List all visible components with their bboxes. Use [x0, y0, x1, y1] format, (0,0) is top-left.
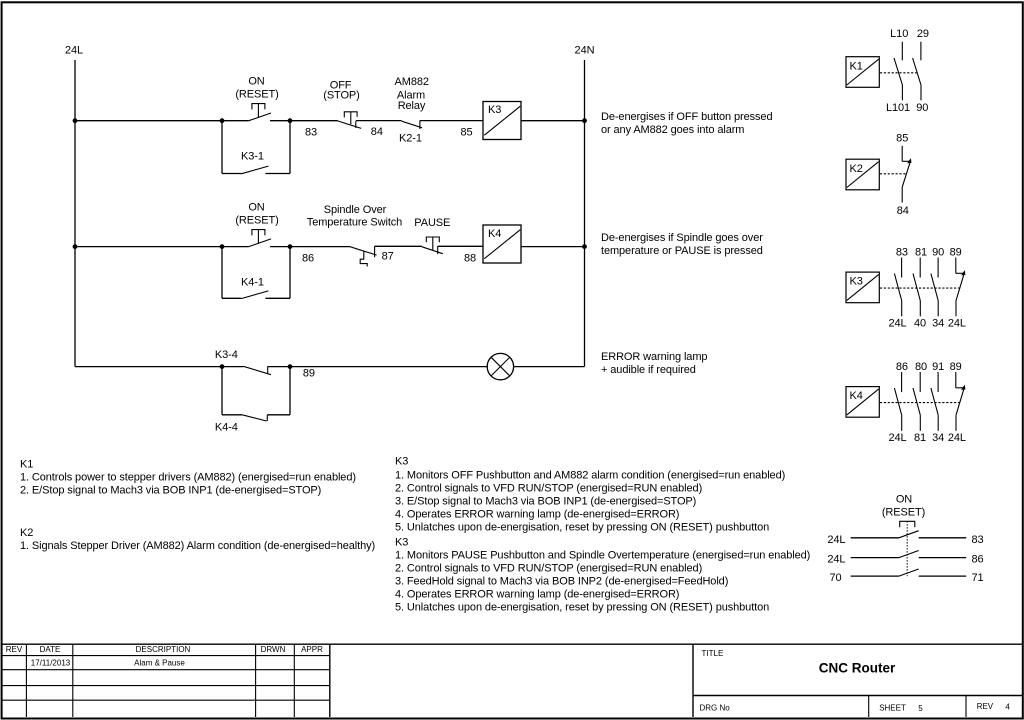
svg-text:2. E/Stop signal to Mach3 via: 2. E/Stop signal to Mach3 via BOB INP1 (… [20, 485, 321, 497]
svg-text:(RESET): (RESET) [235, 215, 278, 227]
svg-text:80: 80 [915, 361, 927, 373]
terminal labels 24L 81 34 24L [888, 432, 965, 444]
coil K3 [483, 102, 521, 140]
title block separator line [2, 643, 1022, 645]
revision table headers [6, 645, 323, 654]
svg-text:83: 83 [305, 127, 317, 139]
svg-text:APPR: APPR [301, 645, 323, 654]
dashed actuator link K3 [880, 287, 960, 289]
svg-text:K3: K3 [395, 456, 408, 468]
dashed actuator link K1 [880, 72, 918, 74]
svg-text:K3: K3 [850, 276, 863, 288]
svg-text:1. Monitors PAUSE Pushbutton a: 1. Monitors PAUSE Pushbutton and Spindle… [395, 550, 810, 562]
svg-text:91: 91 [932, 361, 944, 373]
wire rung1 coil to right rail [521, 120, 585, 122]
svg-text:L101: L101 [886, 102, 910, 114]
svg-text:Temperature Switch: Temperature Switch [307, 217, 402, 229]
svg-text:5. Unlatches upon de-energisat: 5. Unlatches upon de-energisation, reset… [395, 602, 769, 614]
junction rung1 branch-right [288, 118, 293, 123]
junction rung1 branch-left [220, 118, 225, 123]
svg-text:24L: 24L [888, 317, 906, 329]
svg-text:(STOP): (STOP) [323, 90, 359, 102]
svg-text:K1: K1 [20, 459, 33, 471]
note block K3 [395, 456, 785, 534]
relay K2 coil box [846, 159, 879, 190]
wire rung2 between temp switch and PAUSE [375, 245, 422, 247]
svg-text:84: 84 [371, 126, 383, 138]
svg-text:CNC Router: CNC Router [819, 661, 896, 676]
svg-text:3. FeedHold signal to Mach3 vi: 3. FeedHold signal to Mach3 via BOB INP2… [395, 576, 728, 588]
wire rung3 lamp to right rail [514, 366, 585, 368]
svg-text:K4-4: K4-4 [215, 422, 238, 434]
junction rung3 branch-left [220, 364, 225, 369]
terminal labels 24L 40 34 24L [888, 317, 965, 329]
svg-text:70: 70 [829, 572, 841, 584]
svg-text:+ audible if required: + audible if required [601, 364, 696, 376]
svg-text:85: 85 [461, 127, 473, 139]
svg-text:K3-1: K3-1 [241, 151, 264, 163]
svg-text:1. Monitors OFF Pushbutton and: 1. Monitors OFF Pushbutton and AM882 ala… [395, 470, 785, 482]
svg-text:or any AM882 goes into alarm: or any AM882 goes into alarm [601, 124, 744, 136]
svg-text:(RESET): (RESET) [235, 89, 278, 101]
wire rung2 after ON [270, 246, 350, 248]
wire rung2 to coil [438, 245, 483, 247]
relay K4 coil box [846, 387, 879, 418]
contact K3-4 NC [243, 366, 271, 374]
pushbutton OFF (STOP) NC contact [338, 112, 361, 129]
svg-text:K2-1: K2-1 [399, 133, 422, 145]
svg-text:81: 81 [915, 246, 927, 258]
relay AM882 Alarm Relay label [395, 76, 429, 112]
svg-text:90: 90 [916, 102, 928, 114]
contact K3-1 parallel branch [222, 121, 290, 174]
svg-text:4. Operates ERROR warning lamp: 4. Operates ERROR warning lamp (de-energ… [395, 589, 679, 601]
svg-text:1. Signals Stepper Driver (AM8: 1. Signals Stepper Driver (AM882) Alarm … [20, 540, 375, 552]
contact K3 NC pole 4 [956, 258, 966, 317]
svg-text:89: 89 [950, 361, 962, 373]
contact K2 NC [902, 146, 911, 203]
terminal labels 83 81 90 89 [896, 246, 962, 258]
svg-text:40: 40 [914, 317, 926, 329]
svg-text:84: 84 [897, 205, 909, 217]
svg-text:88: 88 [464, 253, 476, 265]
svg-text:DRWN: DRWN [261, 645, 286, 654]
contact K4-1 parallel branch [222, 247, 290, 299]
wire rung3 left [75, 366, 243, 368]
note rung1 [601, 111, 772, 136]
svg-text:24L: 24L [827, 534, 845, 546]
svg-text:24L: 24L [888, 432, 906, 444]
wire rung2 coil to right rail [521, 246, 585, 248]
pushbutton ON (RESET) rung2 NO contact [249, 230, 271, 247]
dashed actuator link K2 [880, 173, 906, 175]
svg-text:K3: K3 [395, 537, 408, 549]
svg-text:ON: ON [248, 201, 264, 213]
coil K4 [483, 225, 521, 263]
revision table row lines [2, 656, 330, 701]
pushbutton ON (RESET) actuator [900, 521, 915, 576]
junction rung2 rail-left [73, 244, 78, 249]
svg-text:90: 90 [932, 246, 944, 258]
svg-text:ON: ON [896, 493, 912, 505]
contact K4 NC pole 4 [956, 372, 966, 431]
svg-text:TITLE: TITLE [702, 649, 724, 658]
svg-text:89: 89 [303, 367, 315, 379]
svg-text:SHEET: SHEET [879, 703, 906, 712]
right rail 24N [584, 60, 586, 367]
svg-text:1. Controls power to stepper d: 1. Controls power to stepper drivers (AM… [20, 472, 356, 484]
svg-text:Relay: Relay [398, 100, 426, 112]
svg-text:24L: 24L [65, 45, 83, 57]
note block K4 (labelled K3) [395, 537, 810, 614]
pushbutton ON (RESET) rung1 NO contact [249, 104, 271, 121]
wire rung3 after K3-4 [268, 366, 488, 368]
svg-text:K2: K2 [20, 527, 33, 539]
svg-text:4. Operates ERROR warning lamp: 4. Operates ERROR warning lamp (de-energ… [395, 509, 679, 521]
wire rung1 between OFF and K2-1 [356, 120, 402, 122]
contact K1 NO pole 2 [913, 42, 921, 101]
svg-text:17/11/2013: 17/11/2013 [31, 658, 71, 667]
wire rung1 after ON [270, 120, 338, 122]
svg-text:86: 86 [302, 253, 314, 265]
svg-text:5: 5 [918, 704, 923, 713]
contact K4 NO pole 3 [931, 372, 938, 431]
svg-text:DESCRIPTION: DESCRIPTION [136, 645, 191, 654]
svg-text:K4: K4 [488, 228, 501, 240]
relay K3 coil box [846, 272, 879, 303]
terminal labels 86 80 91 89 [896, 361, 962, 373]
svg-text:3. E/Stop signal to Mach3 via: 3. E/Stop signal to Mach3 via BOB INP1 (… [395, 496, 696, 508]
revision row 1 [31, 658, 186, 667]
svg-text:24L: 24L [948, 432, 966, 444]
contact K3 NO pole 2 [913, 258, 920, 317]
svg-text:85: 85 [896, 133, 908, 145]
svg-text:(RESET): (RESET) [882, 507, 925, 519]
svg-text:89: 89 [950, 246, 962, 258]
contact K3 NO pole 3 [931, 258, 938, 317]
note rung2 [601, 232, 763, 257]
pushbutton ON (RESET) rung1 label [235, 75, 278, 100]
svg-text:PAUSE: PAUSE [414, 217, 450, 229]
svg-text:K2: K2 [850, 163, 863, 175]
title box divider [693, 695, 1022, 697]
contact K3 NO pole 1 [894, 258, 901, 317]
svg-text:Spindle Over: Spindle Over [324, 204, 387, 216]
ON (RESET) pole 2: 24L to 86 [827, 551, 983, 566]
contact K4 NO pole 1 [894, 372, 901, 431]
svg-text:DRG No: DRG No [700, 704, 731, 713]
pushbutton PAUSE NC contact [422, 237, 443, 254]
svg-text:temperature or PAUSE is presse: temperature or PAUSE is pressed [601, 245, 763, 257]
svg-text:71: 71 [972, 572, 984, 584]
svg-text:86: 86 [896, 361, 908, 373]
svg-text:2. Control signals to VFD RUN/: 2. Control signals to VFD RUN/STOP (ener… [395, 483, 702, 495]
svg-text:ON: ON [248, 75, 264, 87]
svg-text:K3-4: K3-4 [215, 349, 238, 361]
relay K1 coil box [846, 57, 879, 88]
junction rung3 branch-right [288, 364, 293, 369]
revision table verticals [26, 644, 329, 717]
junction rung2 branch-right [288, 244, 293, 249]
junction rung1 rail-left [73, 118, 78, 123]
svg-text:87: 87 [382, 251, 394, 263]
ON (RESET) pole 3: 70 to 71 [829, 569, 983, 584]
svg-text:DATE: DATE [40, 645, 61, 654]
svg-text:De-energises if Spindle goes o: De-energises if Spindle goes over [601, 232, 763, 244]
left rail 24L [74, 60, 76, 367]
dashed actuator link K4 [880, 402, 960, 404]
svg-text:AM882: AM882 [395, 76, 429, 88]
svg-text:K4: K4 [850, 390, 863, 402]
svg-text:34: 34 [932, 317, 944, 329]
svg-text:24L: 24L [827, 554, 845, 566]
wire rung1 to coil [420, 120, 483, 122]
sheet cell divider [868, 696, 870, 718]
svg-text:2. Control signals to VFD RUN/: 2. Control signals to VFD RUN/STOP (ener… [395, 563, 702, 575]
junction rung2 rail-right [582, 244, 587, 249]
svg-text:86: 86 [972, 554, 984, 566]
svg-text:5. Unlatches upon de-energisat: 5. Unlatches upon de-energisation, reset… [395, 522, 769, 534]
svg-text:L10: L10 [890, 28, 908, 40]
contact K2-1 NC [402, 120, 422, 129]
svg-text:Alam & Pause: Alam & Pause [134, 658, 185, 667]
note rung3 [601, 351, 707, 376]
lamp ERROR warning [487, 353, 513, 379]
svg-text:83: 83 [896, 246, 908, 258]
wire rung2 left [75, 246, 249, 248]
pushbutton OFF (STOP) label [323, 79, 359, 101]
svg-text:K3: K3 [488, 104, 501, 116]
note block K1 [20, 459, 356, 497]
pushbutton ON (RESET) rung2 label [235, 201, 278, 226]
contact K4 NO pole 2 [913, 372, 920, 431]
svg-text:REV: REV [977, 702, 994, 711]
svg-text:De-energises if OFF button pre: De-energises if OFF button pressed [601, 111, 772, 123]
svg-text:4: 4 [1005, 702, 1010, 711]
svg-text:K4-1: K4-1 [241, 277, 264, 289]
ON (RESET) pole 1: 24L to 83 [827, 531, 983, 546]
svg-text:REV: REV [6, 645, 23, 654]
contact K1 NO pole 1 [894, 42, 902, 101]
junction rung2 branch-left [220, 244, 225, 249]
contact K4-4 parallel branch [222, 367, 290, 421]
svg-text:K1: K1 [850, 60, 863, 72]
wire rung1 left [75, 120, 249, 122]
title box left edge [692, 644, 694, 717]
pushbutton ON (RESET) detail label [882, 493, 925, 518]
svg-text:29: 29 [917, 28, 929, 40]
junction rung1 rail-right [582, 118, 587, 123]
switch Spindle Over Temperature label [307, 204, 402, 229]
svg-text:83: 83 [972, 534, 984, 546]
svg-text:34: 34 [932, 432, 944, 444]
svg-text:ERROR warning lamp: ERROR warning lamp [601, 351, 707, 363]
svg-text:81: 81 [914, 432, 926, 444]
note block K2 [20, 527, 375, 552]
switch Spindle Over Temperature NC thermal contact [350, 246, 376, 266]
svg-text:24L: 24L [948, 317, 966, 329]
svg-text:24N: 24N [575, 45, 595, 57]
rev cell divider [965, 696, 967, 718]
